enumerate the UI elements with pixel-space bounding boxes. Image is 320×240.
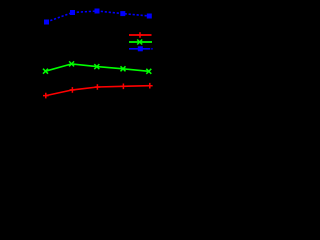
red series: solid line — [46, 86, 150, 96]
legend green X marker — [137, 40, 142, 45]
green series: X markers — [43, 61, 151, 73]
plot background — [0, 0, 163, 126]
green series: solid line — [46, 64, 149, 71]
red series: + markers — [43, 83, 153, 99]
legend blue square marker — [138, 46, 143, 51]
legend green sample line — [129, 41, 152, 43]
blue series: dashed line — [47, 11, 150, 22]
legend red + marker — [137, 32, 143, 38]
legend blue sample dashed line — [129, 48, 153, 50]
legend red sample line — [129, 34, 152, 36]
blue series: square markers — [44, 9, 152, 25]
